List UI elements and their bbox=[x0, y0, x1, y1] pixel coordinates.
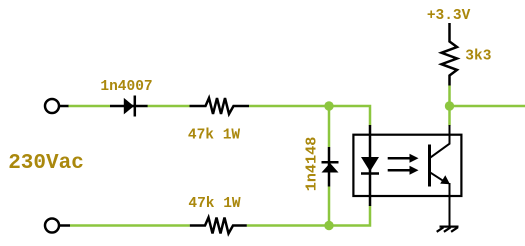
svg-text:230Vac: 230Vac bbox=[8, 152, 84, 175]
svg-text:47k 1W: 47k 1W bbox=[188, 196, 241, 212]
svg-text:3k3: 3k3 bbox=[465, 49, 491, 65]
svg-text:+3.3V: +3.3V bbox=[427, 8, 471, 24]
svg-text:1n4148: 1n4148 bbox=[303, 137, 321, 192]
svg-text:47k 1W: 47k 1W bbox=[188, 127, 241, 143]
svg-text:1n4007: 1n4007 bbox=[100, 79, 152, 95]
